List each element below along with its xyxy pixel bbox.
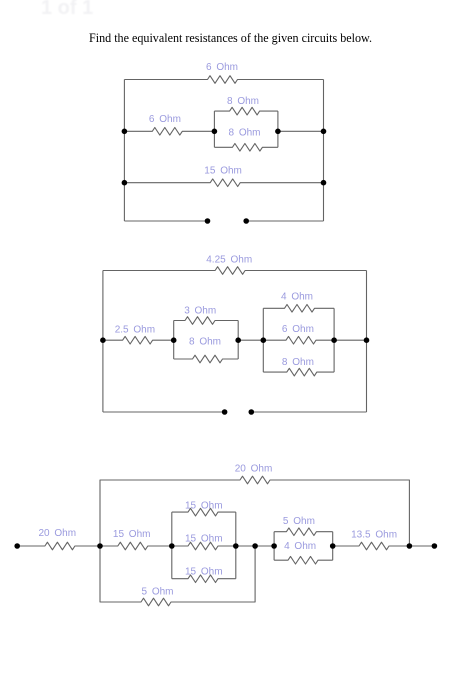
wire: circuit-2 middle left with 2.5 Ohm resistor — [103, 336, 174, 344]
terminal: circuit-2 right — [249, 409, 255, 415]
wire: circuit-2 right vertical — [366, 271, 368, 413]
node F: small loop left — [271, 543, 277, 549]
wire: circuit-1 top branch with resistor zigzag — [124, 76, 323, 84]
svg-text:1 of 1: 1 of 1 — [41, 0, 93, 19]
node C: loop right — [233, 543, 239, 549]
node: circuit-1 right/middle junction — [321, 129, 327, 135]
wire: main line between loops — [236, 545, 274, 547]
svg-text:8 Ohm: 8 Ohm — [282, 357, 314, 368]
node: circuit-2 left junction — [100, 337, 106, 343]
resistor: 3 Ohm upper of loop-1 — [174, 317, 239, 325]
wire: main line 13.5 Ohm resistor and right lead — [333, 542, 435, 550]
svg-text:20 Ohm: 20 Ohm — [39, 528, 77, 539]
wire: circuit-2 left vertical — [102, 271, 104, 413]
svg-text:2.5 Ohm: 2.5 Ohm — [115, 324, 155, 335]
wire: inner loop right edge — [277, 111, 279, 147]
node: loop-1 right — [235, 337, 241, 343]
resistor: 5 Ohm upper of small loop — [274, 528, 333, 536]
wire: circuit-2 bottom left to terminal — [103, 411, 225, 413]
resistor: 8 Ohm lower of inner parallel pair — [214, 144, 278, 152]
wire: between loop-1 and loop-2 — [238, 339, 263, 341]
resistor: 15 Ohm upper of loop — [172, 508, 236, 516]
svg-text:5 Ohm: 5 Ohm — [141, 586, 173, 597]
node: loop-2 left — [261, 337, 267, 343]
node E: bottom branch return — [252, 543, 258, 549]
svg-text:20 Ohm: 20 Ohm — [235, 464, 273, 475]
wire: loop-2 to right vertical — [334, 339, 366, 341]
resistor: 4 Ohm lower of small loop — [274, 556, 333, 564]
resistor: 8 Ohm lower of loop-1 — [174, 355, 239, 363]
svg-text:Find the equivalent resistance: Find the equivalent resistances of the g… — [89, 31, 372, 45]
svg-text:4.25 Ohm: 4.25 Ohm — [206, 255, 252, 266]
wire: circuit-1 15 Ohm branch — [124, 179, 323, 187]
svg-text:6 Ohm: 6 Ohm — [149, 114, 181, 125]
svg-text:15 Ohm: 15 Ohm — [204, 166, 242, 177]
resistor: 4 Ohm upper of loop-2 — [263, 305, 334, 313]
svg-text:13.5 Ohm: 13.5 Ohm — [351, 530, 397, 541]
node: inner loop left — [212, 129, 218, 135]
svg-text:15 Ohm: 15 Ohm — [185, 501, 223, 512]
node: circuit-1 left/middle junction — [122, 129, 128, 135]
wire: 15-Ohm loop right edge — [235, 512, 237, 579]
node G: small loop right — [330, 543, 336, 549]
svg-text:15 Ohm: 15 Ohm — [185, 566, 223, 577]
wire: 15-Ohm loop left edge — [171, 512, 173, 579]
svg-text:6 Ohm: 6 Ohm — [282, 324, 314, 335]
svg-text:3 Ohm: 3 Ohm — [184, 306, 216, 317]
wire: loop-2 right edge — [333, 308, 335, 372]
resistor: 6 Ohm middle of loop-2 — [263, 336, 334, 344]
svg-text:8 Ohm: 8 Ohm — [227, 96, 259, 107]
wire: circuit-1 bottom left to terminal — [124, 220, 207, 222]
wire: circuit-3 top loop with 20 Ohm resistor — [100, 476, 409, 546]
wire: loop-1 right edge — [237, 321, 239, 360]
svg-text:8 Ohm: 8 Ohm — [228, 128, 260, 139]
terminal: circuit-1 left — [205, 218, 211, 224]
svg-text:4 Ohm: 4 Ohm — [284, 541, 316, 552]
node: loop-2 right — [331, 337, 337, 343]
wire: inner loop left edge — [213, 111, 215, 147]
wire: circuit-2 bottom right from terminal — [251, 411, 366, 413]
wire: circuit-1 middle branch right — [278, 130, 324, 132]
svg-text:15 Ohm: 15 Ohm — [113, 529, 151, 540]
wire: circuit-2 top branch with 4.25 Ohm resistor — [103, 267, 367, 275]
wire: circuit-1 bottom right from terminal — [246, 220, 323, 222]
node: circuit-1 left/15-Ohm junction — [122, 180, 128, 186]
terminal: circuit-3 left — [14, 543, 20, 549]
svg-text:5 Ohm: 5 Ohm — [283, 516, 315, 527]
node B: loop left — [169, 543, 175, 549]
node A: left junction — [97, 543, 103, 549]
resistor: 15 Ohm middle of loop — [172, 542, 236, 550]
wire: circuit-3 bottom loop with 5 Ohm resistor — [100, 546, 255, 606]
resistor: 8 Ohm upper of inner parallel pair — [214, 107, 278, 115]
wire: small loop right edge — [332, 532, 334, 561]
node: loop-1 left — [171, 337, 177, 343]
terminal: circuit-3 right — [432, 543, 438, 549]
terminal: circuit-1 right — [243, 218, 249, 224]
node: inner loop right — [275, 129, 281, 135]
wire: loop-2 left edge — [262, 308, 264, 372]
node: circuit-1 right/15-Ohm junction — [321, 180, 327, 186]
wire: circuit-1 right vertical — [323, 80, 325, 222]
wire: circuit-3 left lead with 20 Ohm resistor — [17, 542, 100, 550]
wire: loop-1 left edge — [173, 321, 175, 360]
node D: top branch return — [407, 543, 413, 549]
wire: circuit-1 left vertical — [123, 80, 125, 222]
svg-text:8 Ohm: 8 Ohm — [189, 336, 221, 347]
wire: main line 15 Ohm resistor — [100, 542, 172, 550]
svg-text:15 Ohm: 15 Ohm — [185, 534, 223, 545]
wire: circuit-1 middle branch left with 6 Ohm resistor — [124, 128, 214, 136]
resistor: 15 Ohm lower of loop — [172, 575, 236, 583]
node: circuit-2 right junction — [364, 337, 370, 343]
wire: small loop left edge — [273, 532, 275, 561]
svg-text:6 Ohm: 6 Ohm — [206, 62, 238, 73]
terminal: circuit-2 left — [222, 409, 228, 415]
svg-text:4 Ohm: 4 Ohm — [281, 291, 313, 302]
resistor: 8 Ohm lower of loop-2 — [263, 368, 334, 376]
